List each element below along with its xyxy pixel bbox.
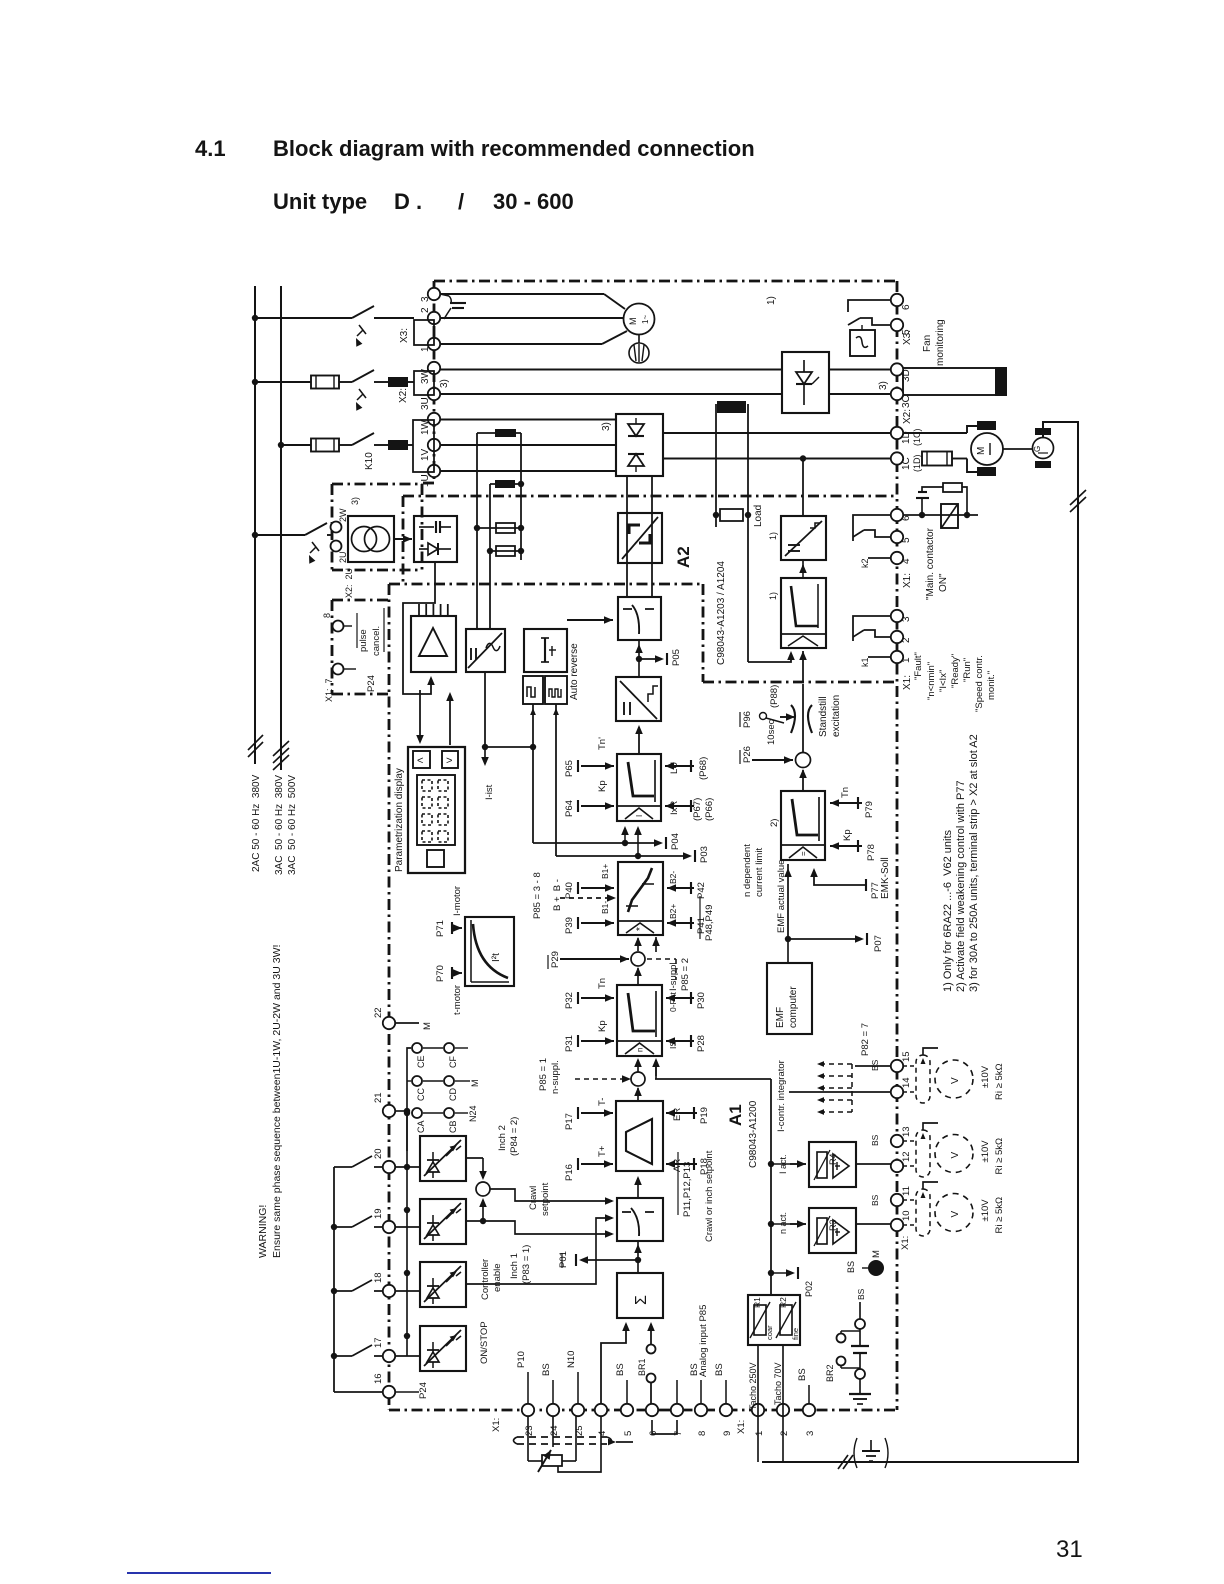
svg-text:21: 21 — [373, 1092, 384, 1103]
svg-text:CA: CA — [416, 1120, 426, 1133]
svg-text:P19: P19 — [699, 1107, 710, 1124]
svg-text:(P84 = 2): (P84 = 2) — [509, 1117, 520, 1156]
svg-text:enable: enable — [492, 1263, 503, 1292]
svg-text:3): 3) — [878, 381, 889, 390]
svg-text:V: V — [950, 1152, 961, 1159]
svg-text:B2+: B2+ — [668, 904, 678, 919]
svg-text:N24: N24 — [468, 1105, 478, 1122]
svg-text:k1: k1 — [860, 657, 870, 667]
svg-text:1~: 1~ — [641, 315, 650, 324]
svg-text:=: = — [799, 851, 808, 856]
svg-text:"Main. contactor: "Main. contactor — [925, 527, 936, 600]
svg-text:BS: BS — [856, 1288, 866, 1300]
svg-text:X3:: X3: — [902, 330, 913, 345]
svg-text:23: 23 — [524, 1425, 535, 1436]
svg-text:P24: P24 — [366, 675, 377, 692]
svg-text:n act.: n act. — [778, 1212, 788, 1234]
svg-text:P85 = 1: P85 = 1 — [538, 1058, 549, 1091]
svg-text:P17: P17 — [564, 1113, 575, 1130]
svg-text:20: 20 — [373, 1148, 384, 1159]
svg-text:11: 11 — [901, 1186, 912, 1196]
svg-text:P01: P01 — [558, 1251, 569, 1268]
svg-text:P31: P31 — [564, 1035, 575, 1052]
svg-text:M: M — [871, 1250, 882, 1258]
svg-text:computer: computer — [788, 986, 799, 1028]
svg-text:BS: BS — [797, 1368, 808, 1381]
svg-text:5: 5 — [623, 1431, 634, 1436]
svg-text:P96: P96 — [742, 711, 753, 728]
svg-text:Fan: Fan — [922, 335, 933, 352]
svg-text:BS: BS — [870, 1194, 880, 1206]
svg-text:ER: ER — [672, 1108, 683, 1121]
svg-text:X2:: X2: — [902, 409, 913, 424]
svg-text:Ensure same phase sequence bet: Ensure same phase sequence between1U-1W,… — [271, 945, 283, 1258]
svg-text:K10: K10 — [364, 452, 375, 470]
svg-text:CD: CD — [448, 1088, 458, 1101]
svg-text:3) for 30A to 250A units, term: 3) for 30A to 250A units, terminal strip… — [968, 734, 980, 992]
svg-text:P65: P65 — [564, 760, 575, 777]
svg-text:B2-: B2- — [668, 871, 678, 884]
svg-text:n: n — [636, 1048, 645, 1052]
svg-text:M: M — [422, 1022, 433, 1030]
svg-text:D .: D . — [394, 189, 422, 214]
svg-text:Inch 1: Inch 1 — [509, 1253, 520, 1279]
svg-text:I-suppl: I-suppl — [668, 962, 679, 991]
svg-text:CF: CF — [448, 1056, 458, 1068]
svg-text:BS: BS — [714, 1363, 725, 1376]
svg-text:V: V — [950, 1077, 961, 1084]
svg-text:1D: 1D — [901, 431, 912, 444]
svg-text:CE: CE — [416, 1055, 426, 1068]
svg-text:t-motor: t-motor — [452, 985, 463, 1015]
svg-text:Standstill: Standstill — [818, 696, 829, 737]
svg-text:±10V: ±10V — [980, 1199, 991, 1222]
svg-text:Kp: Kp — [842, 829, 853, 841]
svg-text:3C: 3C — [901, 395, 912, 408]
svg-text:M: M — [976, 447, 987, 455]
svg-text:3U: 3U — [420, 397, 431, 410]
svg-text:2U: 2U — [338, 551, 348, 563]
svg-text:3AC 50 - 60 Hz 500V: 3AC 50 - 60 Hz 500V — [287, 775, 298, 875]
svg-text:2: 2 — [779, 1431, 790, 1436]
svg-text:I²t: I²t — [491, 953, 502, 962]
svg-text:BS: BS — [541, 1363, 552, 1376]
svg-text:3D: 3D — [901, 369, 912, 382]
svg-text:1C: 1C — [901, 457, 912, 470]
svg-text:Tacho 250V: Tacho 250V — [748, 1362, 758, 1410]
svg-text:19: 19 — [373, 1208, 384, 1219]
svg-text:Kp: Kp — [597, 1020, 608, 1032]
svg-text:P10: P10 — [516, 1351, 527, 1368]
svg-text:k2: k2 — [860, 558, 870, 568]
svg-text:16: 16 — [373, 1373, 384, 1384]
svg-text:Tn: Tn — [840, 787, 851, 798]
svg-text:3AC 50 - 60 Hz 380V: 3AC 50 - 60 Hz 380V — [274, 775, 285, 875]
svg-text:1W: 1W — [420, 419, 431, 435]
svg-text:ON": ON" — [938, 573, 949, 592]
svg-text:fine: fine — [791, 1328, 800, 1340]
svg-text:X2:: X2: — [398, 388, 409, 403]
svg-text:Ri ≥ 5kΩ: Ri ≥ 5kΩ — [994, 1138, 1005, 1175]
svg-text:(P88): (P88) — [769, 685, 780, 708]
svg-text:Tacho 70V: Tacho 70V — [773, 1362, 783, 1405]
svg-text:I-ist: I-ist — [484, 784, 495, 800]
svg-text:P28: P28 — [696, 1035, 707, 1052]
svg-text:15: 15 — [901, 1051, 912, 1062]
svg-text:I: I — [635, 815, 644, 817]
svg-text:X1: 7: X1: 7 — [324, 678, 334, 702]
svg-text:Unit type: Unit type — [273, 189, 367, 214]
svg-text:P71: P71 — [435, 920, 446, 937]
svg-text:X3:: X3: — [399, 328, 410, 343]
svg-text:<: < — [417, 755, 423, 767]
svg-text:1: 1 — [754, 1431, 765, 1436]
svg-text:P18: P18 — [699, 1158, 710, 1175]
svg-text:2AC 50 - 60 Hz 380V: 2AC 50 - 60 Hz 380V — [251, 774, 262, 872]
svg-text:X1:: X1: — [736, 1420, 747, 1434]
svg-text:3: 3 — [805, 1431, 816, 1436]
svg-text:P04: P04 — [670, 833, 681, 850]
svg-text:3): 3) — [350, 497, 360, 505]
svg-text:BS: BS — [846, 1261, 856, 1273]
svg-text:2: 2 — [420, 307, 431, 313]
svg-text:Controller: Controller — [480, 1259, 491, 1300]
svg-text:AR: AR — [672, 1159, 683, 1172]
svg-text:P85 = 3 - 8: P85 = 3 - 8 — [532, 872, 543, 919]
svg-text:Ri ≥ 5kΩ: Ri ≥ 5kΩ — [994, 1197, 1005, 1234]
svg-text:31: 31 — [1056, 1536, 1083, 1563]
svg-text:M: M — [470, 1080, 480, 1088]
svg-text:T-: T- — [597, 1098, 608, 1106]
svg-text:A2: A2 — [674, 546, 693, 568]
svg-text:EMK-Soll: EMK-Soll — [880, 857, 891, 899]
svg-text:CB: CB — [448, 1120, 458, 1133]
svg-text:"Ready": "Ready" — [950, 654, 961, 688]
svg-text:X1:: X1: — [902, 573, 913, 588]
svg-text:P02: P02 — [804, 1281, 814, 1297]
svg-text:"I<Ix": "I<Ix" — [938, 670, 949, 692]
svg-text:BS: BS — [689, 1363, 700, 1376]
svg-text:P05: P05 — [671, 649, 682, 666]
svg-text:BR1: BR1 — [637, 1358, 647, 1376]
svg-text:P26: P26 — [742, 746, 753, 763]
svg-text:4: 4 — [597, 1431, 608, 1436]
svg-text:coar: coar — [765, 1325, 774, 1340]
svg-text:1: 1 — [420, 346, 431, 352]
svg-text:1): 1) — [768, 532, 778, 540]
svg-text:LU: LU — [669, 762, 680, 774]
svg-text:M: M — [628, 318, 638, 326]
svg-text:BS: BS — [870, 1134, 880, 1146]
svg-text:"Speed contr.: "Speed contr. — [974, 655, 985, 712]
svg-text:setpoint: setpoint — [540, 1182, 551, 1216]
svg-text:30 - 600: 30 - 600 — [493, 189, 574, 214]
svg-text:EMF: EMF — [775, 1007, 786, 1028]
svg-text:Auto reverse: Auto reverse — [569, 643, 580, 700]
svg-text:P70: P70 — [435, 965, 446, 982]
svg-text:BS: BS — [615, 1363, 626, 1376]
svg-text:*: * — [635, 927, 646, 931]
svg-text:4.1: 4.1 — [195, 136, 226, 161]
svg-text:(P66): (P66) — [704, 798, 715, 821]
svg-text:Ri ≥ 5kΩ: Ri ≥ 5kΩ — [994, 1063, 1005, 1100]
svg-text:5: 5 — [901, 537, 912, 543]
svg-text:2W: 2W — [338, 508, 348, 522]
svg-text:6: 6 — [901, 304, 912, 310]
svg-text:V: V — [950, 1211, 961, 1218]
svg-text:(P83 = 1): (P83 = 1) — [521, 1245, 532, 1284]
svg-text:3): 3) — [601, 422, 612, 431]
svg-text:EMF actual value: EMF actual value — [776, 860, 787, 933]
svg-text:3: 3 — [420, 296, 431, 302]
svg-text:22: 22 — [373, 1007, 384, 1018]
svg-text:B + B -: B + B - — [552, 879, 563, 911]
svg-text:current limit: current limit — [754, 848, 765, 897]
svg-text:X1:: X1: — [902, 675, 913, 690]
svg-text:3: 3 — [901, 616, 912, 622]
svg-text:ON/STOP: ON/STOP — [479, 1321, 490, 1364]
svg-text:IxR: IxR — [669, 801, 680, 815]
svg-text:P29: P29 — [550, 951, 561, 968]
svg-text:Inch 2: Inch 2 — [497, 1125, 508, 1151]
svg-text:P48,P49: P48,P49 — [704, 905, 715, 941]
svg-text:"Fault": "Fault" — [913, 652, 924, 680]
svg-text:1): 1) — [766, 296, 777, 305]
svg-text:(P67): (P67) — [692, 798, 703, 821]
svg-text:(P68): (P68) — [698, 757, 709, 780]
svg-text:BS: BS — [870, 1059, 880, 1071]
svg-text:2: 2 — [901, 637, 912, 643]
svg-text:B1-: B1- — [600, 901, 610, 914]
svg-text:18: 18 — [373, 1272, 384, 1283]
svg-text:excitation: excitation — [831, 695, 842, 737]
svg-text:C98043-A1200: C98043-A1200 — [748, 1100, 759, 1168]
svg-text:Σ: Σ — [633, 1295, 650, 1305]
svg-text:A1: A1 — [726, 1104, 745, 1126]
svg-text:P32: P32 — [564, 992, 575, 1009]
svg-text:Tn: Tn — [597, 978, 608, 989]
svg-text:(1C): (1C) — [912, 428, 922, 446]
svg-text:/: / — [458, 189, 464, 214]
svg-text:±10V: ±10V — [980, 1065, 991, 1088]
svg-text:0-Pkt: 0-Pkt — [668, 992, 678, 1012]
svg-text:B1+: B1+ — [600, 864, 610, 879]
svg-text:X1:: X1: — [900, 1236, 911, 1250]
svg-text:I-contr. integrator: I-contr. integrator — [776, 1060, 787, 1132]
svg-text:1) Only for 6RA22 ...-6 V62 u: 1) Only for 6RA22 ...-6 V62 units — [942, 829, 954, 992]
svg-text:X2: 2U: X2: 2U — [344, 568, 354, 598]
svg-text:P82 = 7: P82 = 7 — [860, 1023, 871, 1056]
svg-text:WARNING!: WARNING! — [257, 1205, 269, 1258]
svg-text:1): 1) — [768, 592, 778, 600]
svg-text:P30: P30 — [696, 992, 707, 1009]
svg-text:1U: 1U — [420, 474, 431, 487]
svg-text:24: 24 — [549, 1425, 560, 1436]
svg-text:cancel.: cancel. — [371, 626, 382, 656]
svg-text:14: 14 — [901, 1077, 912, 1088]
svg-text:P79: P79 — [864, 801, 875, 818]
svg-text:P42: P42 — [696, 882, 707, 899]
svg-text:8: 8 — [322, 613, 332, 618]
svg-text:9: 9 — [722, 1431, 733, 1436]
svg-text:10sec: 10sec — [766, 719, 777, 745]
svg-text:2) Activate field weakening co: 2) Activate field weakening control with… — [955, 780, 967, 992]
svg-text:G: G — [1033, 446, 1042, 452]
svg-text:P07: P07 — [873, 935, 884, 952]
svg-text:12: 12 — [901, 1151, 912, 1162]
svg-text:Block diagram with recommended: Block diagram with recommended connectio… — [273, 136, 755, 161]
svg-text:P85 = 2: P85 = 2 — [680, 958, 691, 991]
svg-text:X1:: X1: — [491, 1418, 502, 1432]
svg-text:monit.": monit." — [986, 671, 997, 700]
svg-text:3): 3) — [439, 379, 450, 388]
svg-text:4: 4 — [901, 558, 912, 564]
svg-text:"Run": "Run" — [962, 658, 973, 682]
svg-text:P24: P24 — [418, 1382, 429, 1399]
svg-text:P78: P78 — [866, 844, 877, 861]
svg-text:BR2: BR2 — [825, 1364, 835, 1382]
svg-text:Load: Load — [753, 505, 764, 527]
svg-text:I-motor: I-motor — [452, 886, 463, 916]
svg-text:"n<nmin": "n<nmin" — [926, 662, 937, 700]
svg-text:Tn': Tn' — [597, 737, 608, 750]
svg-text:IS: IS — [668, 1041, 678, 1049]
svg-text:1V: 1V — [420, 448, 431, 461]
svg-text:1: 1 — [901, 657, 912, 663]
svg-text:P64: P64 — [564, 800, 575, 817]
svg-text:±10V: ±10V — [980, 1140, 991, 1163]
svg-text:Parametrization display: Parametrization display — [394, 768, 405, 872]
svg-text:Kp: Kp — [597, 780, 608, 792]
svg-text:n-suppl.: n-suppl. — [550, 1060, 561, 1094]
svg-text:13: 13 — [901, 1126, 912, 1137]
svg-text:N10: N10 — [566, 1351, 577, 1368]
svg-text:(1D): (1D) — [912, 454, 922, 472]
svg-text:C98043-A1203 / A1204: C98043-A1203 / A1204 — [716, 561, 727, 665]
svg-text:monitoring: monitoring — [935, 319, 946, 366]
svg-text:2): 2) — [769, 819, 780, 827]
svg-text:17: 17 — [373, 1337, 384, 1348]
svg-text:P11,P12,P13: P11,P12,P13 — [682, 1162, 693, 1217]
svg-text:P39: P39 — [564, 917, 575, 934]
svg-text:Crawl: Crawl — [528, 1186, 539, 1210]
svg-text:T+: T+ — [597, 1145, 608, 1157]
svg-text:P03: P03 — [699, 846, 710, 863]
svg-text:n dependent: n dependent — [742, 844, 753, 897]
svg-text:>: > — [446, 755, 452, 767]
svg-text:10: 10 — [901, 1210, 912, 1221]
svg-text:P16: P16 — [564, 1164, 575, 1181]
svg-text:P40: P40 — [564, 882, 575, 899]
svg-text:8: 8 — [697, 1431, 708, 1436]
svg-text:pulse: pulse — [358, 629, 369, 652]
svg-text:CC: CC — [416, 1088, 426, 1101]
svg-text:6: 6 — [901, 515, 912, 521]
